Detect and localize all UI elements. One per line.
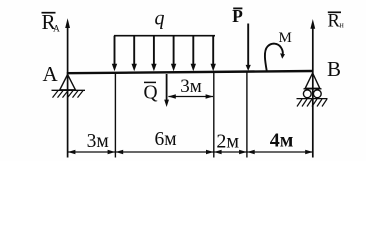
distributed load q: arrow 1	[115, 36, 214, 65]
svg-text:A: A	[43, 62, 59, 86]
dim arrowheads at 3m/6m boundary	[108, 150, 116, 154]
svg-text:q: q	[155, 8, 165, 30]
bottom dimension line	[68, 151, 313, 153]
force P arrow (downward onto beam)	[247, 24, 249, 67]
roller support at B: ground line	[297, 98, 328, 100]
extension line at left end of load (3m/6m boundary)	[114, 73, 116, 158]
roller support at B: right roller	[313, 90, 321, 98]
pin support at A: hatching	[53, 91, 84, 98]
force P label (P bar)	[233, 7, 242, 9]
svg-text:3м: 3м	[87, 131, 109, 152]
label RB (R bar with subscript)	[328, 11, 341, 13]
svg-text:3м: 3м	[180, 76, 202, 97]
dim arrowheads at B	[305, 150, 313, 154]
pin support at A: ground line	[52, 89, 86, 91]
svg-text:A: A	[53, 25, 60, 35]
roller support at B: hatching	[297, 99, 327, 107]
svg-text:Q: Q	[144, 83, 158, 104]
svg-text:2м: 2м	[216, 131, 239, 153]
roller support at B: left roller	[303, 90, 311, 98]
extension line under P (2m/4m boundary)	[246, 73, 248, 158]
roller support at B: base line	[304, 88, 322, 90]
svg-text:P: P	[232, 6, 243, 26]
svg-text:4м: 4м	[270, 130, 294, 152]
extension line at right end of load (6m/2m boundary)	[213, 73, 215, 158]
svg-text:6м: 6м	[154, 129, 176, 150]
label RA (R bar with subscript A)	[42, 12, 56, 14]
resultant Q arrow (downward below beam)	[166, 74, 168, 101]
dim arrowheads at A	[68, 150, 76, 154]
pin support at A: triangle	[60, 75, 76, 90]
moment M arc arrow	[265, 44, 283, 72]
svg-text:н: н	[340, 20, 345, 29]
dim arrowheads at 6m/2m boundary	[206, 150, 214, 154]
reaction arrow RA (vertical line at support A with up arrowhead)	[67, 24, 69, 158]
dim arrowheads at 2m/4m boundary	[239, 150, 247, 154]
resultant Q label (Q bar)	[144, 81, 156, 83]
svg-text:B: B	[327, 57, 341, 81]
roller support at B: triangle	[305, 73, 320, 88]
distributed load q: top line	[114, 35, 215, 37]
beam AB	[67, 71, 313, 73]
svg-text:M: M	[279, 30, 292, 46]
reaction arrow RB (vertical at support B with up arrowhead)	[312, 25, 314, 158]
